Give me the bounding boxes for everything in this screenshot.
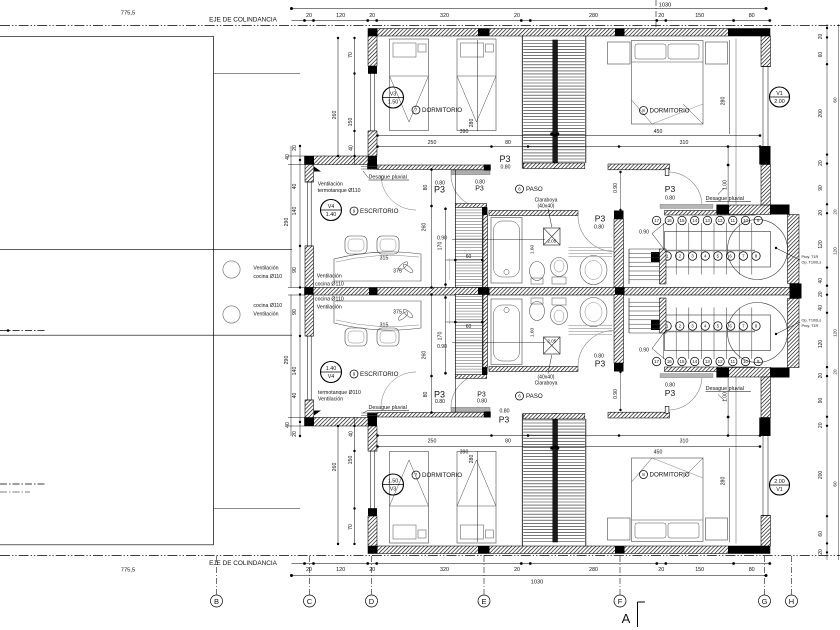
vent circle cocina lower — [223, 306, 240, 323]
svg-text:20: 20 — [658, 567, 664, 573]
svg-text:0.80: 0.80 — [594, 354, 604, 360]
svg-text:390: 390 — [460, 450, 469, 456]
svg-text:P3: P3 — [475, 186, 484, 193]
svg-text:cocina Ø110: cocina Ø110 — [315, 282, 344, 288]
upper annex east wall — [788, 215, 800, 284]
upper window label V4 — [321, 200, 342, 221]
svg-text:20: 20 — [818, 160, 824, 166]
svg-text:20: 20 — [833, 209, 838, 215]
patio line upper — [0, 249, 292, 251]
upper left dim line — [299, 146, 301, 288]
svg-text:1.60: 1.60 — [530, 245, 536, 255]
svg-text:DORMITORIO: DORMITORIO — [422, 472, 462, 479]
svg-text:260: 260 — [422, 223, 428, 232]
svg-text:0.80: 0.80 — [435, 399, 445, 405]
neighbour lot line vertical (grid B) — [213, 36, 215, 545]
svg-text:termotanque Ø110: termotanque Ø110 — [318, 390, 361, 396]
svg-text:60: 60 — [466, 324, 472, 330]
svg-text:450: 450 — [654, 129, 663, 135]
svg-text:6: 6 — [518, 394, 521, 399]
svg-text:Ventilación: Ventilación — [317, 274, 342, 280]
svg-text:40: 40 — [818, 305, 824, 311]
svg-text:EJE DE COLINDANCIA: EJE DE COLINDANCIA — [209, 17, 278, 24]
upper window V4 jamb lines — [305, 181, 314, 183]
right dimension column — [826, 24, 828, 560]
lower bathroom north wall — [489, 367, 578, 372]
upper unit bedroom west wall lower seg — [368, 131, 377, 156]
lower office wall projection lines — [288, 425, 305, 427]
lower staircase side lines — [521, 414, 523, 547]
lower annex stair risers (projection) — [665, 315, 771, 351]
svg-text:cocina Ø110: cocina Ø110 — [315, 297, 344, 303]
upper office door swing arc — [381, 175, 416, 210]
svg-text:7: 7 — [415, 473, 418, 478]
lower escritorio desk and chairs — [334, 301, 421, 330]
upper annex west pier — [651, 252, 660, 262]
upper proy leader — [776, 248, 800, 260]
lower window V3 jamb lines — [368, 508, 377, 510]
vent circle cocina upper — [223, 261, 240, 278]
svg-text:250: 250 — [428, 140, 437, 146]
upper staircase central wall — [553, 40, 558, 169]
lower claraboya skylight — [544, 337, 561, 354]
svg-text:Desague pluvial: Desague pluvial — [369, 175, 407, 181]
lower desk scissors icon — [397, 310, 409, 321]
svg-text:V3: V3 — [390, 92, 397, 98]
lower window V1 jambs — [761, 515, 771, 517]
svg-text:140: 140 — [292, 367, 298, 376]
svg-text:260: 260 — [332, 111, 338, 120]
svg-text:280: 280 — [721, 97, 727, 106]
svg-text:F: F — [618, 597, 623, 606]
lower unit bedroom west wall lower seg — [368, 426, 377, 451]
svg-text:0.80: 0.80 — [665, 383, 675, 389]
svg-text:120: 120 — [818, 340, 824, 349]
svg-text:Proy. T1R: Proy. T1R — [802, 324, 819, 328]
lower window label V1 — [770, 475, 790, 495]
upper bedroom door swing arc — [451, 175, 485, 209]
neighbour lot line top — [0, 35, 214, 37]
upper bedroom door leaf (grey) — [451, 170, 490, 175]
upper eave arrow tick — [314, 167, 321, 172]
svg-text:2.05: 2.05 — [547, 339, 556, 344]
svg-text:0.90: 0.90 — [639, 348, 649, 354]
lower unit exterior north wall — [368, 546, 770, 554]
lower office west wall lower seg — [305, 295, 314, 337]
svg-text:280: 280 — [469, 455, 475, 464]
lower desague channel (grey) — [660, 374, 713, 378]
upper staircase treads — [523, 40, 553, 42]
svg-text:120: 120 — [833, 329, 838, 337]
upper paso north wall east part — [608, 164, 670, 170]
svg-text:775,5: 775,5 — [121, 11, 136, 17]
svg-text:EJE DE COLINDANCIA: EJE DE COLINDANCIA — [209, 560, 278, 567]
lower bathroom east wall — [614, 295, 624, 364]
svg-text:80: 80 — [423, 185, 429, 191]
svg-text:14: 14 — [692, 359, 697, 364]
svg-text:20: 20 — [818, 422, 824, 428]
svg-text:10: 10 — [743, 359, 748, 364]
svg-text:2.00: 2.00 — [774, 479, 785, 485]
svg-text:15: 15 — [680, 359, 685, 364]
upper annex 1.00 dim line — [727, 147, 729, 205]
svg-text:P3: P3 — [595, 214, 606, 224]
upper desk scissors icon — [397, 260, 409, 271]
svg-text:Ventilación: Ventilación — [318, 182, 343, 188]
upper vertical dim lines bedroom7 — [337, 38, 339, 156]
lower bedroom7 single bed — [457, 452, 496, 544]
lower roof projection line east — [735, 377, 737, 544]
property line EJE DE COLINDANCIA top (dash-dot) — [0, 25, 840, 27]
upper escritorio desk and chairs — [334, 252, 421, 281]
lower room dim line 250/80/310 — [378, 435, 761, 437]
upper unit exterior north wall — [368, 29, 770, 37]
lower staircase south wall — [523, 414, 585, 420]
svg-text:315: 315 — [380, 323, 389, 329]
svg-text:150: 150 — [348, 456, 354, 465]
patio line lower — [0, 334, 292, 336]
svg-text:10: 10 — [743, 218, 748, 223]
svg-text:Proy. T1R: Proy. T1R — [802, 255, 819, 259]
svg-text:0.90: 0.90 — [613, 183, 619, 193]
svg-text:20: 20 — [818, 373, 824, 379]
svg-text:40: 40 — [349, 145, 355, 151]
lower unit bedroom west wall corner pier — [367, 413, 377, 427]
left margin dash marks lower — [0, 483, 45, 485]
svg-text:70: 70 — [348, 52, 354, 58]
svg-text:1.40: 1.40 — [326, 366, 337, 372]
upper escritorio east partition line — [454, 170, 456, 288]
upper door jamb detail — [665, 169, 669, 176]
svg-text:B: B — [214, 597, 219, 606]
upper bedroom8 nightstands — [608, 42, 631, 64]
lower office west wall upper seg — [305, 400, 314, 418]
upper annex north wall — [665, 211, 756, 216]
svg-text:20: 20 — [306, 13, 312, 19]
svg-text:775,5: 775,5 — [121, 568, 136, 574]
upper duct shaft ladder lines — [455, 207, 482, 287]
svg-text:70: 70 — [348, 524, 354, 530]
lower eave arrow tick — [314, 411, 321, 416]
svg-text:2.00: 2.00 — [774, 99, 785, 105]
upper main east wall lower seg — [761, 165, 771, 206]
svg-text:40: 40 — [292, 184, 298, 190]
svg-text:80: 80 — [505, 439, 511, 445]
upper bathroom door swing arc — [578, 216, 614, 252]
svg-text:16: 16 — [667, 218, 672, 223]
lower patio door swing arc — [668, 376, 702, 410]
svg-text:ESCRITORIO: ESCRITORIO — [360, 208, 399, 215]
svg-text:310: 310 — [680, 140, 689, 146]
svg-text:2.05: 2.05 — [547, 239, 556, 244]
upper bedroom south wall pier — [484, 165, 491, 171]
svg-text:Desague pluvial: Desague pluvial — [706, 386, 744, 392]
svg-text:20: 20 — [306, 567, 312, 573]
svg-text:9: 9 — [353, 209, 356, 214]
svg-text:E: E — [481, 597, 486, 606]
lower bedroom door leaf (grey) — [451, 408, 490, 413]
svg-text:17: 17 — [654, 218, 659, 223]
lower window label V3 — [383, 474, 404, 495]
svg-text:G: G — [762, 597, 768, 606]
upper bathroom vent note (tiny text lines) — [569, 247, 613, 249]
svg-text:80: 80 — [749, 567, 755, 573]
upper shaft east wall — [483, 215, 488, 288]
svg-text:40: 40 — [292, 393, 298, 399]
svg-text:170: 170 — [438, 242, 444, 251]
svg-text:60: 60 — [818, 52, 824, 58]
upper claraboya skylight — [544, 228, 561, 245]
svg-text:250: 250 — [428, 439, 437, 445]
svg-text:280: 280 — [589, 13, 598, 19]
svg-text:320: 320 — [440, 567, 449, 573]
svg-text:cocina Ø110: cocina Ø110 — [253, 274, 282, 280]
svg-text:20: 20 — [514, 567, 520, 573]
lower bedroom south wall pier — [484, 412, 491, 418]
lower main east wall pier — [759, 418, 770, 437]
svg-text:0.80: 0.80 — [477, 398, 487, 404]
svg-text:DORMITORIO: DORMITORIO — [650, 472, 690, 479]
svg-text:375: 375 — [393, 269, 402, 275]
upper bathroom east wall — [614, 219, 624, 288]
svg-text:20: 20 — [818, 549, 824, 555]
svg-text:390: 390 — [460, 129, 469, 135]
lower duct shaft ladder lines — [455, 295, 482, 375]
upper main east wall upper seg — [761, 36, 771, 67]
upper office west wall upper seg — [305, 165, 314, 183]
svg-text:0.80: 0.80 — [500, 165, 510, 171]
svg-text:0.90: 0.90 — [613, 389, 619, 399]
upper bedroom7 single bed — [457, 39, 496, 131]
lower unit north wall black piers — [368, 546, 378, 554]
svg-text:7: 7 — [415, 108, 418, 113]
lower annex east wall — [788, 299, 800, 368]
svg-text:80: 80 — [505, 140, 511, 146]
upper unit north wall black piers — [368, 29, 378, 37]
lower unit bedroom west wall upper seg — [368, 516, 377, 546]
svg-text:40: 40 — [349, 431, 355, 437]
lower V3 sill projection line — [214, 508, 301, 510]
lower bedroom door swing arc — [451, 374, 485, 408]
svg-text:12: 12 — [718, 359, 723, 364]
svg-text:140: 140 — [292, 207, 298, 216]
svg-text:PASO: PASO — [526, 393, 543, 400]
svg-text:1.60: 1.60 — [530, 328, 536, 338]
lower room dim line 390/450 — [378, 446, 761, 448]
svg-text:(40x40): (40x40) — [538, 204, 555, 210]
svg-text:60: 60 — [833, 481, 838, 487]
bottom dimension band 1030/775,5 — [292, 575, 767, 577]
upper bidet — [530, 262, 545, 281]
svg-text:13: 13 — [705, 359, 710, 364]
lower bedroom8 double bed — [632, 458, 704, 542]
upper office west wall lower seg — [305, 246, 314, 288]
left margin dash-dot mark — [0, 330, 46, 332]
svg-text:90: 90 — [292, 309, 298, 315]
lower annex west pier — [651, 320, 660, 330]
lower shaft east wall — [483, 295, 488, 368]
svg-text:0.90: 0.90 — [437, 344, 447, 350]
svg-text:Ventilación: Ventilación — [253, 266, 278, 272]
upper office wall projection lines — [288, 155, 305, 157]
lower washbasin — [580, 298, 607, 327]
svg-text:DORMITORIO: DORMITORIO — [650, 108, 690, 115]
svg-text:11: 11 — [731, 359, 736, 364]
upper annex projection circle — [728, 220, 788, 280]
party wall projection lines — [288, 287, 305, 289]
svg-text:20: 20 — [369, 13, 375, 19]
svg-text:1.50: 1.50 — [388, 479, 399, 485]
svg-text:40: 40 — [285, 154, 291, 160]
lower bathroom vent note (tiny text lines) — [569, 334, 613, 336]
svg-text:Ventilación: Ventilación — [318, 397, 343, 403]
svg-text:90: 90 — [292, 267, 298, 273]
upper unit bedroom west wall corner pier — [367, 156, 377, 170]
svg-text:20: 20 — [514, 13, 520, 19]
top dimension band 1030/775,5 — [292, 8, 767, 10]
lower annex north wall — [665, 367, 756, 372]
upper annex step number circles — [652, 216, 660, 224]
svg-text:0.80: 0.80 — [665, 196, 675, 202]
svg-text:1030: 1030 — [659, 3, 671, 9]
svg-text:1.40: 1.40 — [326, 212, 337, 218]
svg-text:40: 40 — [818, 278, 824, 284]
svg-text:DORMITORIO: DORMITORIO — [422, 107, 462, 114]
lower office door swing arc — [381, 372, 416, 407]
lower window V4 jamb lines — [305, 399, 314, 401]
svg-text:A: A — [622, 611, 631, 626]
upper bedroom7 single bed — [390, 39, 429, 131]
property line EJE DE COLINDANCIA bottom (dash-dot) — [0, 555, 840, 557]
lower bedroom south wall — [377, 413, 484, 418]
upper roof eave line — [361, 166, 379, 168]
svg-text:P3: P3 — [499, 154, 510, 164]
svg-text:290: 290 — [284, 218, 290, 227]
svg-text:P3: P3 — [665, 184, 676, 194]
lower room label dormitorio7 — [412, 471, 420, 479]
lower office north wall — [305, 418, 369, 427]
svg-text:Op. T100Ls: Op. T100Ls — [802, 261, 822, 265]
svg-text:200: 200 — [818, 109, 824, 118]
lower door jamb detail — [665, 406, 669, 413]
neighbour lot line bottom — [0, 544, 214, 546]
upper bathtub — [491, 218, 522, 284]
svg-text:280: 280 — [469, 119, 475, 128]
svg-text:12: 12 — [718, 218, 723, 223]
lower toilet — [551, 306, 568, 325]
upper staircase south wall — [523, 163, 585, 169]
svg-text:P3: P3 — [434, 184, 445, 194]
lower duct shaft top band — [455, 375, 486, 379]
lower room label escritorio — [350, 370, 358, 378]
upper patio steps — [629, 248, 661, 250]
svg-text:20: 20 — [292, 431, 298, 437]
lower staircase treads — [523, 541, 553, 543]
svg-text:1030: 1030 — [531, 580, 543, 586]
svg-text:450: 450 — [654, 450, 663, 456]
svg-text:80: 80 — [423, 392, 429, 398]
upper duct shaft top band — [455, 204, 486, 208]
svg-text:16: 16 — [667, 359, 672, 364]
lower left dim line — [299, 295, 301, 437]
lower main east wall lower seg — [761, 377, 771, 418]
svg-text:20: 20 — [833, 369, 838, 375]
svg-text:H: H — [789, 597, 794, 606]
svg-text:8: 8 — [642, 472, 645, 477]
upper bedroom south wall — [377, 165, 484, 170]
upper annex stair risers (projection) — [665, 232, 771, 268]
svg-text:termotanque Ø110: termotanque Ø110 — [318, 188, 361, 194]
upper window V3 jamb lines — [368, 73, 377, 75]
upper annex east party pier — [790, 284, 802, 293]
upper toilet — [551, 258, 568, 277]
svg-text:150: 150 — [348, 118, 354, 127]
lower paso north wall east part — [608, 412, 670, 418]
upper patio door swing arc — [668, 172, 702, 206]
svg-text:375: 375 — [393, 310, 402, 316]
svg-text:D: D — [369, 597, 375, 606]
svg-text:120: 120 — [336, 567, 345, 573]
svg-text:15: 15 — [680, 218, 685, 223]
upper staircase newel dots — [550, 132, 554, 136]
svg-text:Ventilación: Ventilación — [317, 305, 342, 311]
lower proy leader — [776, 322, 800, 334]
svg-text:C: C — [307, 597, 313, 606]
upper staircase side lines — [521, 36, 523, 169]
upper bathroom east wall pier — [614, 211, 624, 220]
svg-text:20: 20 — [369, 567, 375, 573]
svg-text:V1: V1 — [776, 91, 783, 97]
svg-text:280: 280 — [721, 477, 727, 486]
lower bidet — [530, 302, 545, 321]
svg-text:120: 120 — [336, 13, 345, 19]
svg-text:260: 260 — [422, 351, 428, 360]
svg-text:40: 40 — [285, 422, 291, 428]
lower bedroom7 single bed — [390, 452, 429, 544]
svg-text:20: 20 — [818, 210, 824, 216]
svg-text:17: 17 — [654, 359, 659, 364]
svg-text:1.50: 1.50 — [388, 100, 399, 106]
lower main east wall upper seg — [761, 516, 771, 547]
svg-text:V1: V1 — [776, 487, 783, 493]
upper room label dormitorio8 — [640, 107, 648, 115]
upper room dim line 390/450 — [378, 135, 761, 137]
svg-text:60: 60 — [466, 254, 472, 260]
svg-text:0.90: 0.90 — [437, 236, 447, 242]
svg-text:V4: V4 — [328, 204, 335, 210]
lower patio steps — [629, 332, 661, 334]
lower window label V4 — [321, 362, 342, 383]
svg-text:150: 150 — [695, 567, 704, 573]
party wall between units — [305, 288, 802, 296]
lower staircase newel dots — [550, 446, 554, 450]
svg-text:P3: P3 — [595, 359, 606, 369]
lower roof eave line — [361, 415, 379, 417]
svg-text:Op. T100Ls: Op. T100Ls — [802, 319, 822, 323]
svg-text:315: 315 — [380, 256, 389, 262]
svg-text:170: 170 — [438, 332, 444, 341]
svg-text:0.80: 0.80 — [594, 225, 604, 231]
svg-text:Desague pluvial: Desague pluvial — [706, 196, 744, 202]
svg-text:280: 280 — [589, 567, 598, 573]
svg-text:20: 20 — [658, 13, 664, 19]
svg-text:cocina Ø110: cocina Ø110 — [253, 303, 282, 309]
svg-text:P3: P3 — [665, 388, 676, 398]
svg-text:8: 8 — [642, 108, 645, 113]
lower room label paso — [516, 392, 524, 400]
svg-text:60: 60 — [818, 531, 824, 537]
lower unit bedroom west wall pier — [368, 509, 377, 517]
